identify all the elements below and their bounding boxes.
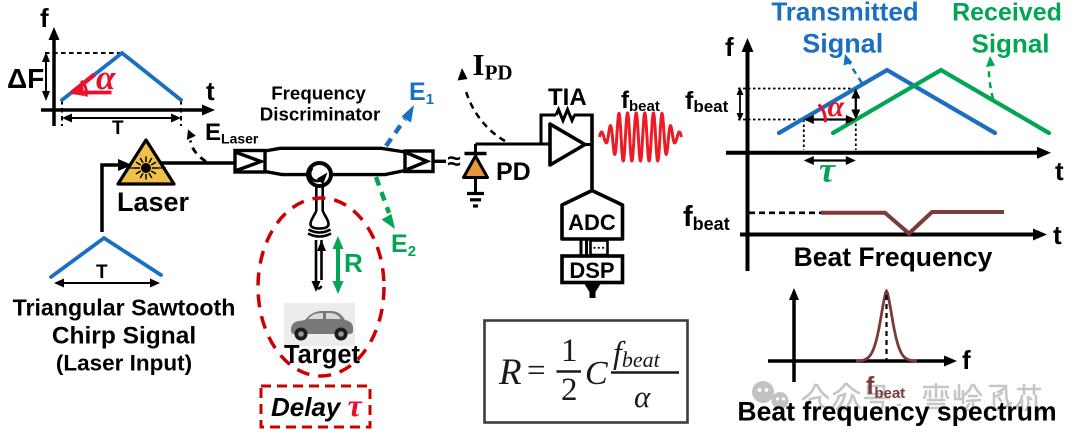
svg-text:C: C <box>585 355 608 392</box>
svg-text:f: f <box>725 32 734 62</box>
svg-text:Discriminator: Discriminator <box>260 104 380 125</box>
svg-text:Beat Frequency: Beat Frequency <box>794 242 993 272</box>
svg-text:Chirp Signal: Chirp Signal <box>52 323 196 350</box>
svg-text:ADC: ADC <box>568 210 616 235</box>
svg-text:Laser: Laser <box>117 187 190 217</box>
svg-text:PD: PD <box>496 158 531 186</box>
svg-text:T: T <box>112 118 124 139</box>
svg-text:Signal: Signal <box>802 29 883 59</box>
svg-text:Transmitted: Transmitted <box>771 0 918 27</box>
svg-text:Signal: Signal <box>971 29 1049 59</box>
svg-text:t: t <box>1055 156 1064 186</box>
svg-text:DSP: DSP <box>569 258 614 283</box>
svg-text:R: R <box>498 352 522 393</box>
svg-text:f: f <box>962 345 971 375</box>
svg-text:t: t <box>206 76 215 106</box>
svg-text:α: α <box>828 90 845 123</box>
svg-text:(Laser Input): (Laser Input) <box>56 351 192 376</box>
svg-text:τ: τ <box>819 150 836 190</box>
svg-text:T: T <box>96 262 108 283</box>
svg-text:Triangular Sawtooth: Triangular Sawtooth <box>13 295 236 321</box>
svg-text:≈: ≈ <box>448 148 461 175</box>
svg-text:Delay τ: Delay τ <box>271 387 364 423</box>
svg-text:1: 1 <box>561 333 578 369</box>
svg-text:α: α <box>634 379 651 414</box>
svg-text:α: α <box>96 58 116 97</box>
svg-text:2: 2 <box>561 372 578 408</box>
svg-text:=: = <box>527 353 546 389</box>
svg-text:ΔF: ΔF <box>7 63 44 94</box>
svg-text:Received: Received <box>952 0 1062 27</box>
svg-text:Beat frequency spectrum: Beat frequency spectrum <box>737 397 1056 427</box>
svg-text:Frequency: Frequency <box>271 83 366 104</box>
svg-text:f: f <box>40 3 49 33</box>
svg-text:R: R <box>344 248 363 278</box>
svg-text:t: t <box>1053 220 1062 250</box>
